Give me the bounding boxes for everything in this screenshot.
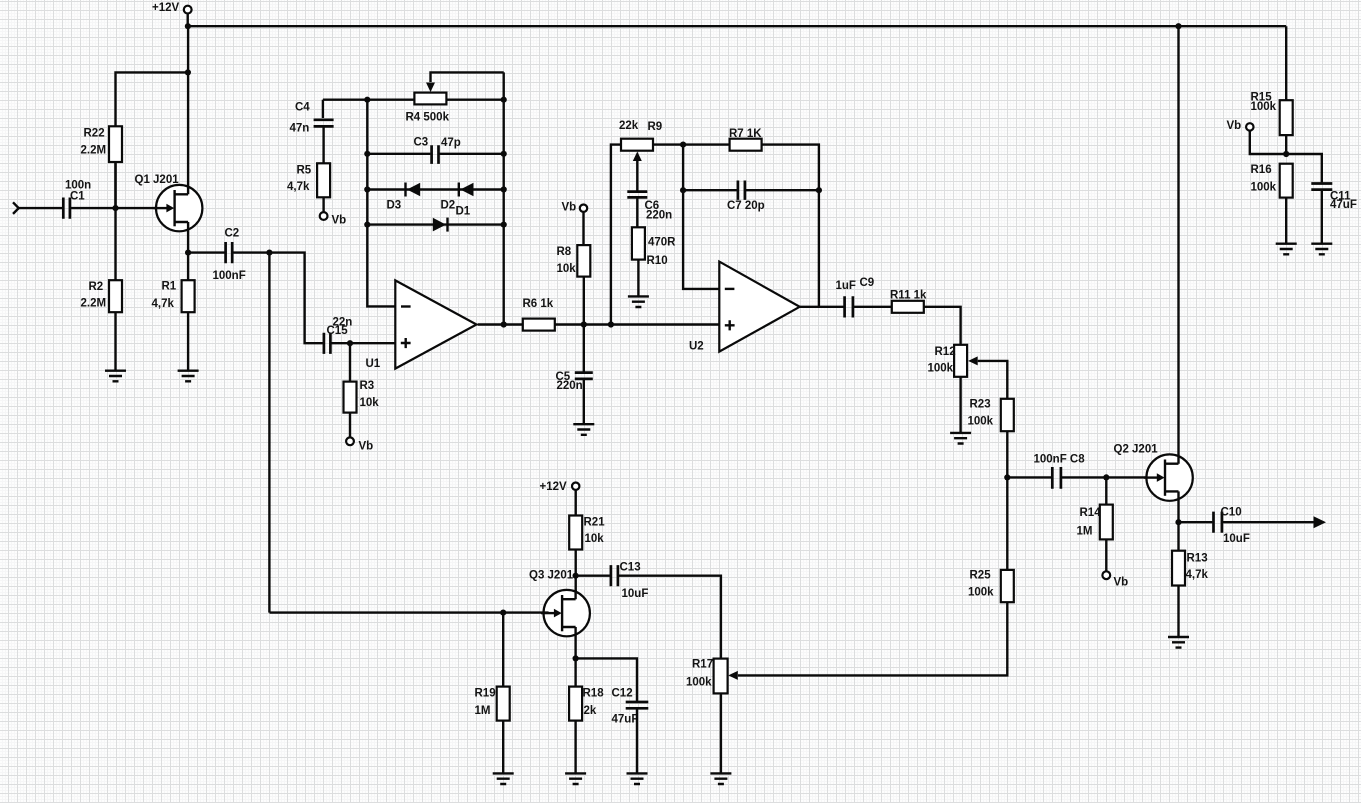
ground under R18 xyxy=(565,773,586,784)
svg-text:R6 1k: R6 1k xyxy=(523,298,554,310)
wire C9 to R11 xyxy=(854,306,892,308)
svg-text:Q2 J201: Q2 J201 xyxy=(1114,444,1159,456)
svg-text:D2: D2 xyxy=(441,200,456,212)
resistor R25 100k xyxy=(968,570,1014,603)
ground under C5 xyxy=(573,424,594,435)
wire R11 to R12 top xyxy=(924,307,961,345)
output arrow xyxy=(1314,516,1327,528)
svg-text:C2: C2 xyxy=(225,228,240,240)
terminal Vb below R5 xyxy=(320,212,347,226)
capacitor C12 47uF xyxy=(612,688,649,726)
svg-text:C7 20p: C7 20p xyxy=(727,200,765,212)
wire +12V terminal to rail xyxy=(186,14,188,27)
wire Q1 source to C2 xyxy=(188,251,224,253)
node C7 left xyxy=(680,187,686,193)
svg-text:U1: U1 xyxy=(366,358,381,370)
terminal Vb above R8 xyxy=(562,202,588,214)
terminal Vb below R14 xyxy=(1102,571,1128,588)
wire C11 to ground xyxy=(1321,191,1323,244)
wire R4 right xyxy=(446,98,503,100)
wire node to C11 xyxy=(1286,154,1322,182)
wire R12 bottom to ground xyxy=(959,377,961,433)
svg-text:R2: R2 xyxy=(89,281,104,293)
arrow R9 wiper up xyxy=(633,152,642,162)
node C7 right xyxy=(816,187,822,193)
svg-text:470R: 470R xyxy=(648,237,676,249)
svg-text:4,7k: 4,7k xyxy=(152,298,175,310)
svg-text:Vb: Vb xyxy=(1114,577,1129,589)
resistor R13 4,7k xyxy=(1172,551,1208,586)
diode D3 xyxy=(387,183,421,212)
resistor R21 10k xyxy=(569,516,605,550)
wire C15 to U1 plus xyxy=(332,342,396,344)
svg-text:220n: 220n xyxy=(557,380,583,392)
wire R8 to Vb terminal xyxy=(582,212,584,245)
node R14 junction xyxy=(1103,474,1109,480)
wire +12V to R21 xyxy=(575,490,577,516)
resistor R11 1k xyxy=(890,290,927,313)
node Q2 source xyxy=(1175,519,1181,525)
wire R18 to ground xyxy=(574,721,576,774)
node gate junction xyxy=(112,205,118,211)
potentiometer R9 22k xyxy=(619,120,662,151)
svg-text:D1: D1 xyxy=(456,206,471,218)
wire rail right end down to R15 xyxy=(1285,26,1287,100)
capacitor C7 20p xyxy=(727,181,765,213)
svg-text:220n: 220n xyxy=(646,210,672,222)
wire R9 wiper to C6 xyxy=(636,161,638,192)
resistor R8 10k xyxy=(557,245,591,277)
svg-text:R3: R3 xyxy=(360,380,375,392)
potentiometer R4 500k xyxy=(406,93,450,124)
node left C3 row xyxy=(364,97,370,103)
node R22/drain junction xyxy=(185,69,191,75)
svg-text:D3: D3 xyxy=(387,200,402,212)
node C2 output xyxy=(266,250,272,256)
capacitor C6 220n xyxy=(627,192,672,222)
arrow R17 wiper left xyxy=(728,671,738,680)
svg-text:R7 1K: R7 1K xyxy=(729,128,762,140)
svg-text:R17: R17 xyxy=(692,659,713,671)
wire Vb terminal to node xyxy=(1250,131,1286,154)
svg-text:R19: R19 xyxy=(475,688,496,700)
wire R21 to Q3 drain xyxy=(575,550,577,600)
svg-text:1M: 1M xyxy=(1077,526,1093,538)
wire node to R13 xyxy=(1177,522,1179,551)
svg-text:R12: R12 xyxy=(935,346,956,358)
svg-text:4,7k: 4,7k xyxy=(1186,569,1209,581)
svg-text:1uF: 1uF xyxy=(836,280,856,292)
wire Q2 source down xyxy=(1177,491,1179,522)
wire input to C1 xyxy=(19,207,63,209)
ground under R1 xyxy=(178,371,199,382)
node Q3 source xyxy=(573,655,579,661)
wire U2 output to C9 xyxy=(800,306,844,308)
wire R16 to ground xyxy=(1285,198,1287,244)
svg-text:Vb: Vb xyxy=(1227,120,1242,132)
arrow R12 wiper left xyxy=(968,356,978,365)
ground under R17 xyxy=(710,773,731,784)
svg-text:R16: R16 xyxy=(1251,164,1272,176)
node right rail junctions xyxy=(501,97,507,103)
wire left feedback rail xyxy=(367,100,395,307)
svg-text:100nF: 100nF xyxy=(213,270,246,282)
wire Q2 drain up to rail xyxy=(1177,26,1179,464)
wire R3 to Vb terminal xyxy=(349,413,351,438)
wire R14 to Vb terminal xyxy=(1105,539,1107,571)
resistor R23 100k xyxy=(968,399,1014,432)
wire R12 wiper to R23 rail xyxy=(978,361,1008,399)
svg-text:U2: U2 xyxy=(689,341,704,353)
node Q1 source xyxy=(185,250,191,256)
resistor R19 1M xyxy=(475,687,510,721)
capacitor C11 47uF xyxy=(1311,184,1357,212)
wire C4 to R5 xyxy=(322,128,324,164)
wire C1 to Q1 gate xyxy=(71,207,167,209)
wire R5 to Vb terminal xyxy=(322,197,324,212)
svg-text:100k: 100k xyxy=(686,677,712,689)
svg-text:R22: R22 xyxy=(84,128,105,140)
wire C7 row xyxy=(683,189,819,191)
svg-text:R4 500k: R4 500k xyxy=(406,112,450,124)
diode D2 xyxy=(441,183,474,212)
wire node to R19 xyxy=(502,613,504,687)
svg-text:47p: 47p xyxy=(441,137,461,149)
capacitor C9 1uF xyxy=(836,277,875,318)
wire Q3 source down xyxy=(574,627,576,687)
svg-text:Vb: Vb xyxy=(562,202,577,214)
wire U2 minus branch xyxy=(683,145,719,289)
wire R9 right to R7 xyxy=(653,143,730,145)
capacitor C10 10uF xyxy=(1214,507,1250,546)
capacitor C13 10uF xyxy=(611,562,648,601)
svg-text:2.2M: 2.2M xyxy=(81,298,107,310)
wire Q3 gate run xyxy=(269,611,548,613)
wire R13 to ground xyxy=(1177,586,1179,638)
resistor R3 10k xyxy=(344,380,380,413)
terminal +12V above R21 xyxy=(540,481,580,493)
svg-text:+12V: +12V xyxy=(540,481,568,493)
capacitor C15 22n xyxy=(324,317,352,354)
svg-text:10k: 10k xyxy=(360,397,380,409)
svg-text:R11 1k: R11 1k xyxy=(890,290,927,302)
wire node down to Q3 gate run xyxy=(268,253,270,613)
wire +12V rail across top xyxy=(188,25,1286,27)
transistor Q3 J201 xyxy=(529,570,590,637)
potentiometer R12 100k xyxy=(928,345,968,377)
resistor R10 470R xyxy=(632,227,676,267)
svg-text:100k: 100k xyxy=(1251,101,1277,113)
wire R23 to node xyxy=(1006,431,1008,477)
wire C2 to node xyxy=(233,251,269,253)
svg-text:R5: R5 xyxy=(297,165,312,177)
ground under R13 xyxy=(1168,637,1189,648)
svg-text:C3: C3 xyxy=(414,137,429,149)
svg-text:10k: 10k xyxy=(585,533,605,545)
resistor R6 1k xyxy=(523,298,555,331)
wire Q1 drain up xyxy=(187,26,189,194)
resistor R15 100k xyxy=(1251,92,1293,136)
resistor R7 1K xyxy=(729,128,762,151)
svg-text:C12: C12 xyxy=(612,688,633,700)
wire node to R2 xyxy=(114,208,116,280)
capacitor C1 100n xyxy=(63,180,91,219)
wire C12 to ground xyxy=(636,709,638,773)
wire node to C10 xyxy=(1179,521,1213,523)
node Q3 drain / C13 xyxy=(573,573,579,579)
resistor R22 2.2M xyxy=(81,126,123,162)
svg-text:C13: C13 xyxy=(620,562,641,574)
svg-text:Q3 J201: Q3 J201 xyxy=(529,570,574,582)
wire C13 to R17 top xyxy=(619,576,721,659)
wire U1 output xyxy=(478,323,523,325)
wire diode row 2 xyxy=(367,223,503,225)
wire R10 to ground xyxy=(637,260,639,297)
svg-text:C1: C1 xyxy=(70,191,85,203)
arrow R4 wiper down xyxy=(426,83,435,93)
node C5/R8 junction xyxy=(581,321,587,327)
wire C3 row xyxy=(367,153,503,155)
wire C4 branch down xyxy=(322,100,324,118)
wire C5 to ground xyxy=(583,380,585,424)
node rail at Q2 drain line xyxy=(1175,23,1181,29)
svg-text:Q1 J201: Q1 J201 xyxy=(135,174,180,186)
wire R22 top to +12V line xyxy=(116,72,188,208)
svg-text:100k: 100k xyxy=(1251,182,1277,194)
wire R25 rail down xyxy=(1006,477,1008,570)
node R19 junction xyxy=(500,610,506,616)
wire node to R14 xyxy=(1105,477,1107,504)
wire node to C5 xyxy=(583,325,585,373)
svg-text:R9: R9 xyxy=(648,121,663,133)
ground under C12 xyxy=(627,773,648,784)
svg-text:R8: R8 xyxy=(557,246,572,258)
svg-text:100k: 100k xyxy=(968,416,994,428)
node R15/R16 xyxy=(1283,151,1289,157)
resistor R2 2.2M xyxy=(81,280,123,312)
resistor R5 4,7k xyxy=(287,163,330,197)
wire diode row 1 xyxy=(367,188,503,190)
ground under R19 xyxy=(493,773,514,784)
svg-text:100k: 100k xyxy=(928,363,954,375)
svg-text:100nF C8: 100nF C8 xyxy=(1034,454,1086,466)
svg-text:47n: 47n xyxy=(290,122,310,134)
ground under R12 xyxy=(950,433,971,444)
capacitor C8 100nF xyxy=(1034,454,1086,489)
svg-text:2k: 2k xyxy=(584,705,597,717)
wire R25 to R17 wiper xyxy=(738,602,1007,675)
op-amp U1 xyxy=(366,280,477,370)
wire Q1 source down xyxy=(187,222,189,253)
ground under C11 xyxy=(1311,244,1332,255)
wire R4 left rail to C4 branch xyxy=(323,98,415,100)
svg-text:R18: R18 xyxy=(583,688,605,700)
wire R9 left branch xyxy=(611,145,621,325)
ground under R2 xyxy=(105,371,126,382)
wire R8 branch up xyxy=(583,277,585,325)
svg-text:22k: 22k xyxy=(619,120,639,132)
node R9/R7 junction xyxy=(680,142,686,148)
svg-text:R25: R25 xyxy=(970,570,992,582)
ground under R10 xyxy=(628,296,649,307)
potentiometer R17 100k xyxy=(686,659,728,694)
resistor R1 4,7k xyxy=(152,280,195,312)
capacitor C2 100nF xyxy=(213,228,246,283)
wire R17 to ground xyxy=(720,693,722,773)
wire node to C13 xyxy=(576,575,610,577)
svg-text:2.2M: 2.2M xyxy=(81,145,107,157)
svg-text:10uF: 10uF xyxy=(622,588,649,600)
svg-text:R10: R10 xyxy=(647,255,668,267)
svg-text:R13: R13 xyxy=(1187,553,1208,565)
capacitor C3 47p xyxy=(414,137,461,164)
wire C8 to Q2 gate xyxy=(1062,476,1157,478)
capacitor C5 220n xyxy=(556,371,593,392)
svg-text:R1: R1 xyxy=(162,281,177,293)
svg-text:Vb: Vb xyxy=(359,441,374,453)
wire node to R1 xyxy=(187,253,189,281)
resistor R16 100k xyxy=(1251,164,1293,198)
wire R4 wiper xyxy=(431,72,504,82)
transistor Q2 J201 xyxy=(1114,444,1193,501)
svg-text:R14: R14 xyxy=(1080,507,1102,519)
resistor R18 2k xyxy=(569,687,604,721)
wire R15 to node xyxy=(1285,135,1287,154)
op-amp U2 xyxy=(689,262,800,353)
svg-text:47uF: 47uF xyxy=(612,714,639,726)
wire node to R3 xyxy=(349,343,351,381)
svg-text:Vb: Vb xyxy=(332,215,347,227)
wire R7 right down to U2 output xyxy=(762,145,819,307)
wire right feedback rail xyxy=(503,72,505,324)
node rail left xyxy=(185,23,191,29)
wire C6 to R10 xyxy=(636,199,638,228)
svg-text:1M: 1M xyxy=(475,705,491,717)
input port arrow xyxy=(13,202,19,214)
wire node to C8 xyxy=(1007,476,1051,478)
svg-text:10k: 10k xyxy=(557,263,577,275)
terminal Vb left of R15 xyxy=(1227,120,1254,132)
wire R2 to ground xyxy=(114,312,116,371)
wire node to C12 xyxy=(576,658,637,701)
svg-text:R23: R23 xyxy=(970,399,991,411)
wire node right and down to C15 xyxy=(269,253,322,344)
svg-text:R21: R21 xyxy=(584,517,606,529)
wire R19 to ground xyxy=(502,721,504,774)
svg-text:C4: C4 xyxy=(295,102,310,114)
svg-text:4,7k: 4,7k xyxy=(287,181,310,193)
node C15/R3 junction xyxy=(347,340,353,346)
svg-text:+12V: +12V xyxy=(152,2,180,14)
wire C10 to output arrow xyxy=(1223,521,1315,523)
svg-text:47uF: 47uF xyxy=(1330,199,1357,211)
ground under R16 xyxy=(1276,244,1297,255)
terminal Vb below R3 xyxy=(346,437,373,452)
wire R6 to U2 plus xyxy=(555,323,720,325)
node R9 branch junction xyxy=(608,321,614,327)
transistor Q1 J201 xyxy=(135,174,203,232)
svg-text:100k: 100k xyxy=(968,587,994,599)
svg-text:C9: C9 xyxy=(860,277,875,289)
wire R1 to ground xyxy=(187,312,189,371)
svg-text:C10: C10 xyxy=(1221,507,1242,519)
svg-text:C15: C15 xyxy=(327,325,349,337)
resistor R14 1M xyxy=(1077,505,1113,540)
svg-text:10uF: 10uF xyxy=(1223,533,1250,545)
wire R22 bottom xyxy=(114,162,116,208)
diode D1 xyxy=(433,206,471,232)
+12V terminal top xyxy=(152,2,192,14)
capacitor C4 47n xyxy=(290,102,334,135)
node C8 junction xyxy=(1004,474,1010,480)
